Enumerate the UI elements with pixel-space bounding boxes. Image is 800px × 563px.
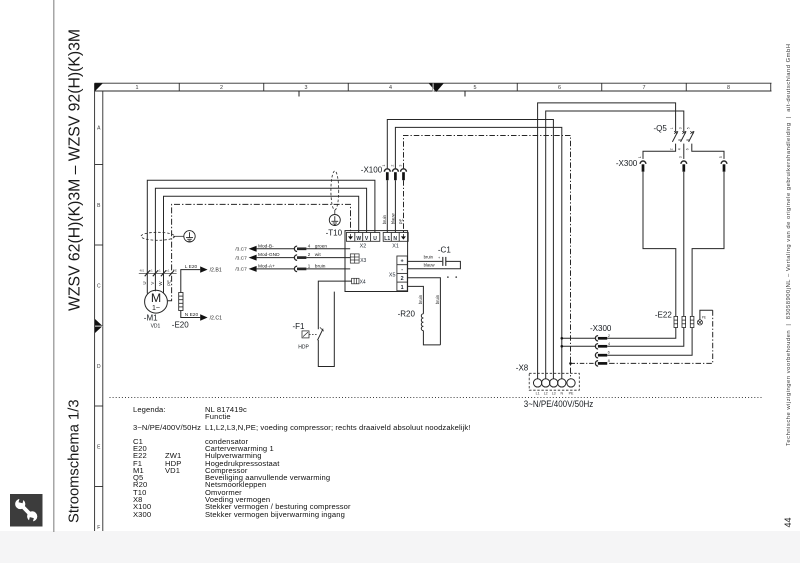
- svg-text:X1: X1: [392, 243, 399, 249]
- svg-text:-X300: -X300: [616, 159, 638, 168]
- svg-text:X2: X2: [360, 243, 367, 249]
- wire E22 PE to X300 pin8 dash-dot: [607, 310, 713, 363]
- svg-text:1: 1: [136, 85, 139, 91]
- wires E22 elements to X300 sockets: [607, 328, 692, 356]
- label -M1 VD1: [144, 313, 161, 329]
- svg-text:L1: L1: [536, 392, 540, 396]
- svg-text:2: 2: [308, 252, 311, 257]
- Mod-A+ wire with /3.C7 arrow: [235, 263, 350, 272]
- svg-text:1: 1: [670, 127, 674, 129]
- svg-text:PE: PE: [398, 219, 403, 225]
- svg-text:Technische wijzigingen voorbeh: Technische wijzigingen voorbehouden | 83…: [786, 44, 792, 446]
- wrench service icon: [10, 494, 43, 527]
- svg-text:PE: PE: [173, 269, 177, 273]
- wire L1 from X8 to Q5 pole1: [538, 103, 676, 379]
- svg-text:Mod-B-: Mod-B-: [258, 243, 274, 249]
- svg-text:1: 1: [308, 264, 311, 269]
- svg-text:+: +: [401, 259, 404, 265]
- wire PE motor to T10 X2 dash-dot: [168, 204, 351, 300]
- separator dotted line: [110, 397, 763, 399]
- wires X100 to T10 X1: [382, 180, 403, 232]
- svg-text:PE: PE: [166, 280, 171, 286]
- reactor R20 loop: [407, 278, 440, 345]
- svg-text:U: U: [373, 236, 377, 242]
- svg-text:-F1: -F1: [293, 322, 306, 331]
- svg-text:4: 4: [608, 341, 611, 346]
- svg-text:PE: PE: [569, 392, 574, 396]
- svg-text:W: W: [158, 281, 163, 286]
- stray dots: [447, 276, 449, 278]
- motor M1: [145, 290, 168, 313]
- svg-text:X5: X5: [389, 273, 396, 279]
- motor terminal plate -M1: [139, 269, 177, 286]
- svg-text:5: 5: [686, 127, 690, 129]
- svg-text:wit: wit: [315, 252, 322, 258]
- svg-text:L E20: L E20: [185, 264, 198, 270]
- svg-text:PE: PE: [702, 315, 706, 319]
- Mod-GND wire with /3.C7 arrow: [235, 252, 350, 261]
- svg-text:5: 5: [719, 156, 723, 158]
- svg-text:-X8: -X8: [516, 364, 529, 373]
- frame: row letters A-F: [97, 126, 101, 532]
- svg-text:3~N/PE/400V/50Hz: 3~N/PE/400V/50Hz: [524, 399, 594, 409]
- svg-text:6: 6: [686, 148, 690, 150]
- svg-text:L2: L2: [544, 392, 548, 396]
- svg-text:-M1: -M1: [144, 313, 158, 322]
- connector X3: [350, 254, 366, 264]
- terminal strip X5: [389, 256, 407, 291]
- wire PE from X8 to X100 pin3 dash-dot: [404, 136, 571, 379]
- center marker top: [429, 83, 444, 92]
- center marker left: [95, 319, 103, 333]
- svg-text:2: 2: [220, 85, 223, 91]
- heater E20: [179, 293, 183, 311]
- connector X300 top pins 1 3 5: [638, 156, 727, 171]
- svg-text:/2.C1: /2.C1: [210, 316, 223, 322]
- svg-text:1: 1: [401, 285, 404, 291]
- svg-text:E: E: [97, 445, 101, 451]
- svg-text:-R20: -R20: [398, 309, 416, 318]
- svg-text:Mod-GND: Mod-GND: [258, 252, 280, 258]
- svg-text:44: 44: [783, 517, 793, 527]
- svg-text:-Q5: -Q5: [654, 124, 668, 133]
- svg-text:4: 4: [308, 243, 311, 248]
- svg-text:Stroomschema 1/3: Stroomschema 1/3: [66, 400, 83, 524]
- svg-text:bruin: bruin: [315, 264, 326, 270]
- svg-text:4: 4: [678, 148, 682, 150]
- svg-text:/3.C7: /3.C7: [235, 267, 247, 273]
- svg-text:M: M: [151, 291, 161, 305]
- wires Q5 to X300 pins: [643, 144, 724, 159]
- svg-text:w1: w1: [166, 269, 170, 273]
- svg-text:-C1: -C1: [438, 246, 451, 255]
- wire W motor to T10 X2: [164, 196, 359, 293]
- svg-text:7: 7: [643, 85, 646, 91]
- frame: grid ticks under header: [299, 91, 465, 97]
- svg-text:Mod-A+: Mod-A+: [258, 263, 275, 269]
- connector X100 plug pins: [382, 165, 406, 181]
- wires X300 sockets to X8 N and PE: [561, 337, 596, 365]
- svg-text:+: +: [438, 256, 441, 260]
- svg-text:1~: 1~: [152, 305, 160, 312]
- capacitor C1 loop: [407, 255, 460, 269]
- svg-text:blauw: blauw: [390, 212, 395, 224]
- svg-text:1: 1: [382, 165, 386, 167]
- svg-text:3: 3: [398, 165, 402, 167]
- svg-text:D: D: [97, 364, 101, 370]
- svg-text:/3.C7: /3.C7: [235, 255, 247, 261]
- svg-text:X4: X4: [360, 280, 366, 286]
- connector X300 bottom sockets 2 4 6 8: [595, 333, 611, 366]
- svg-text:2: 2: [670, 148, 674, 150]
- frame: row label column: [95, 83, 103, 531]
- corner fold marker top-left: [95, 83, 103, 91]
- legend block: [0, 0, 800, 1]
- frame: column numbers 1-8: [136, 85, 731, 91]
- svg-text:/3.C7: /3.C7: [235, 247, 247, 253]
- terminal strip X2: [346, 233, 379, 250]
- svg-text:-X100: -X100: [361, 165, 383, 174]
- svg-text:bruin: bruin: [435, 294, 440, 304]
- svg-text:L3: L3: [552, 392, 556, 396]
- svg-text:bruin: bruin: [382, 214, 387, 224]
- wire N E20 with arrow /2.C1: [181, 311, 222, 322]
- svg-text:HDP: HDP: [298, 345, 309, 351]
- svg-text:B: B: [97, 203, 101, 209]
- svg-text:3: 3: [305, 85, 308, 91]
- connector X4: [352, 278, 366, 285]
- pressure switch F1 sensor box: [302, 331, 317, 338]
- svg-text:3: 3: [679, 156, 683, 158]
- svg-text:-E22: -E22: [655, 310, 672, 319]
- svg-text:L1: L1: [384, 236, 390, 242]
- svg-text:-M1: -M1: [139, 269, 145, 273]
- svg-text:VD1: VD1: [151, 324, 161, 330]
- svg-text:F: F: [97, 525, 100, 531]
- svg-text:N: N: [393, 236, 397, 242]
- cable shield ellipse at T10: [331, 171, 339, 210]
- svg-text:4: 4: [389, 85, 392, 91]
- svg-text:8: 8: [608, 358, 611, 363]
- svg-text:v1: v1: [157, 269, 161, 273]
- wires X300 pins to E22: [643, 172, 724, 317]
- svg-text:2: 2: [401, 276, 404, 282]
- wire L3 from X8 to X100 pin1: [387, 120, 553, 379]
- svg-text:6: 6: [558, 85, 561, 91]
- pressure switch F1 loop: [318, 281, 352, 366]
- svg-text:bruin: bruin: [418, 294, 423, 304]
- svg-text:blauw: blauw: [424, 262, 436, 267]
- Mod-B- wire with /3.C7 arrow: [235, 243, 350, 252]
- svg-text:V: V: [150, 282, 155, 285]
- svg-text:/2.B1: /2.B1: [210, 268, 222, 274]
- svg-text:2: 2: [608, 333, 611, 338]
- left margin rule: [53, 0, 55, 532]
- breaker Q5: [670, 127, 695, 150]
- terminal strip X8: [529, 373, 579, 395]
- svg-text:-: -: [401, 267, 403, 273]
- svg-text:8: 8: [727, 85, 730, 91]
- svg-text:U: U: [142, 281, 147, 284]
- E22 PE terminal: [697, 315, 706, 325]
- wire L E20 with arrow /2.B1: [181, 264, 222, 293]
- T10 inverter box: [345, 231, 408, 292]
- svg-text:N E20: N E20: [185, 312, 199, 318]
- label -F1 HDP: [293, 322, 310, 351]
- svg-text:A: A: [97, 126, 101, 132]
- wire V motor to T10 X2: [155, 188, 366, 291]
- svg-text:2: 2: [390, 165, 394, 167]
- terminal strip X1: [383, 233, 408, 250]
- svg-text:groen: groen: [315, 243, 328, 249]
- wire N from X8 to X100 pin2: [395, 127, 561, 378]
- cable shield ellipse at motor: [141, 232, 175, 240]
- svg-text:WZSV 62(H)(K)3M – WZSV 92(H)(K: WZSV 62(H)(K)3M – WZSV 92(H)(K)3M: [67, 29, 84, 311]
- svg-text:N: N: [560, 392, 563, 396]
- svg-text:6: 6: [608, 350, 611, 355]
- wire L2 from X8 to Q5 pole2: [546, 111, 684, 379]
- frame: column header row: [95, 83, 772, 91]
- svg-text:-E20: -E20: [172, 321, 189, 330]
- svg-text:3: 3: [678, 127, 682, 129]
- svg-text:u1: u1: [149, 269, 153, 273]
- ground symbol at T10 cable: [329, 215, 340, 226]
- svg-text:1: 1: [638, 156, 642, 158]
- ground symbol at motor cable: [184, 231, 195, 242]
- svg-text:-T10: -T10: [326, 228, 343, 237]
- bottom page-edge gray strip: [0, 531, 800, 563]
- heater E22 elements: [674, 316, 694, 327]
- wire U motor to T10 X2: [147, 180, 375, 293]
- svg-text:-X300: -X300: [590, 324, 612, 333]
- svg-text:5: 5: [474, 85, 477, 91]
- svg-text:X3: X3: [360, 258, 366, 264]
- svg-text:bruin: bruin: [424, 255, 434, 260]
- svg-text:W: W: [356, 236, 361, 242]
- svg-text:C: C: [97, 284, 101, 290]
